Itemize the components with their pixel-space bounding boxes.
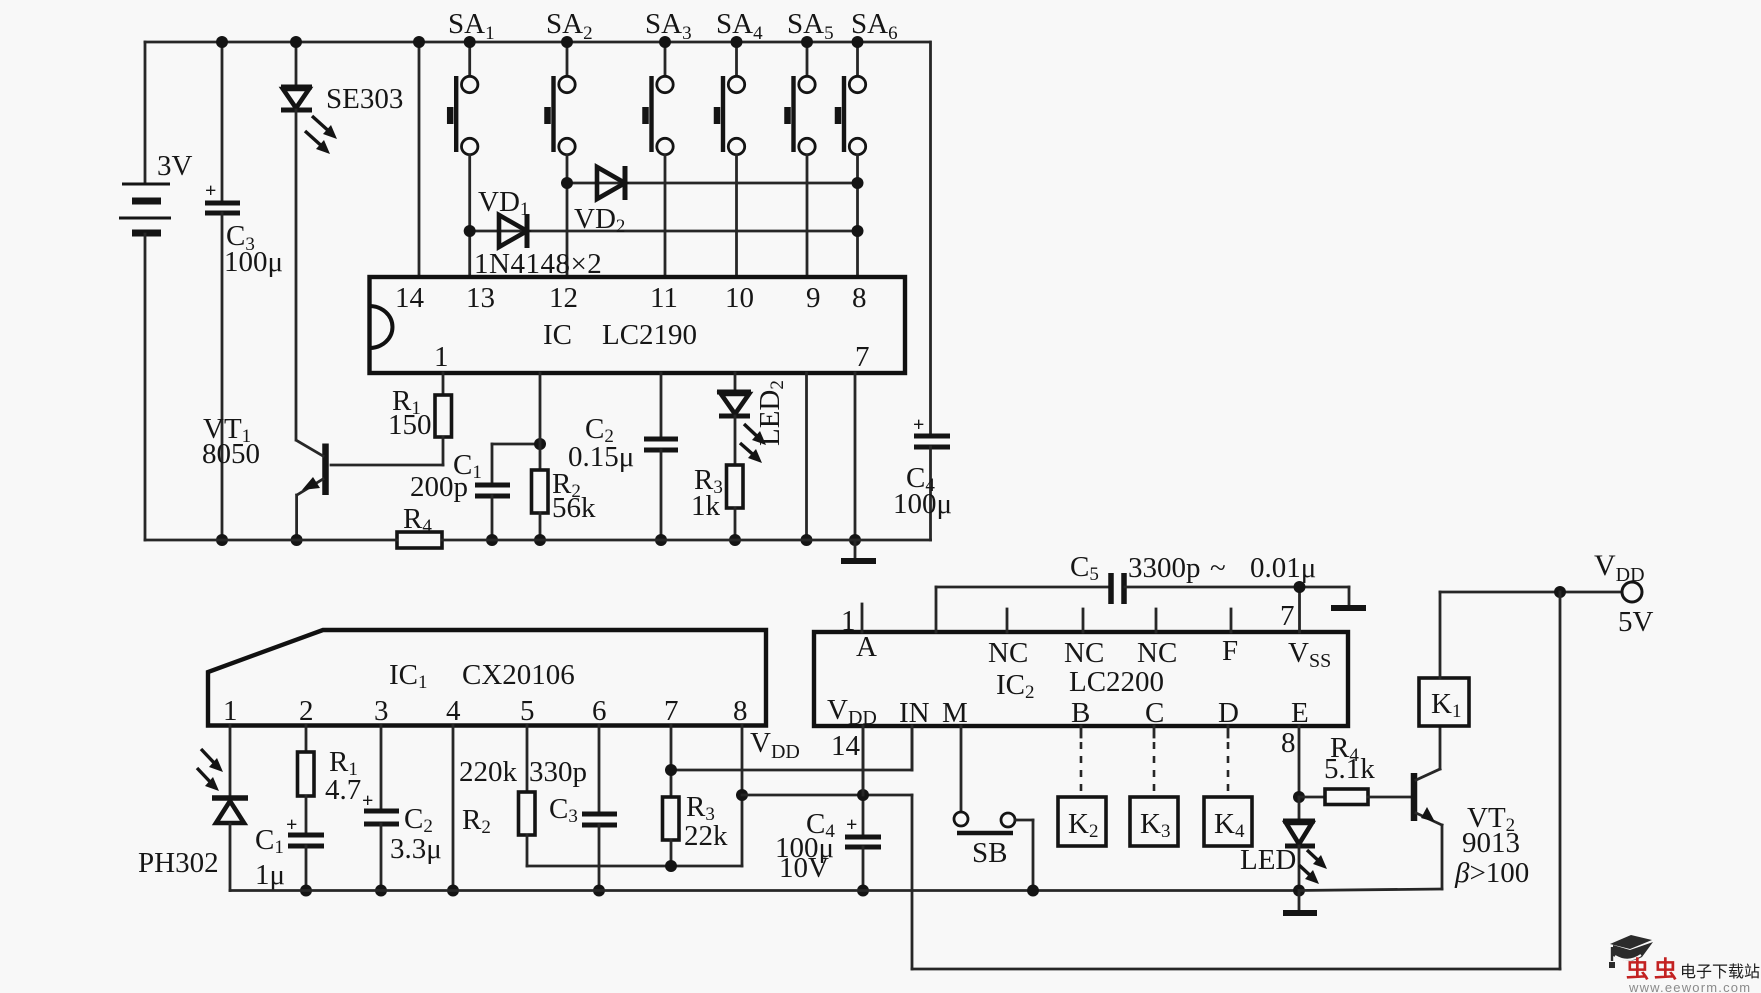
IC LC2190 <box>370 277 906 373</box>
node dot C4 bottom (receiver rail) <box>857 885 869 897</box>
svg-text:NC: NC <box>1064 637 1104 669</box>
wire IN pin down-left <box>911 726 914 770</box>
svg-text:13: 13 <box>466 282 495 314</box>
svg-text:100μ: 100μ <box>224 246 283 278</box>
resistor R2 56k <box>532 373 597 540</box>
svg-text:1k: 1k <box>691 490 721 522</box>
svg-text:1μ: 1μ <box>255 859 285 891</box>
wire R2/R3 bottoms to pin8 column <box>527 860 742 872</box>
svg-text:+: + <box>286 814 297 836</box>
svg-text:5: 5 <box>520 695 535 727</box>
resistor R4 5.1k (receiver) <box>1299 732 1411 805</box>
wire pin7 to IN of IC2 <box>665 726 912 777</box>
svg-text:LED2: LED2 <box>754 380 788 446</box>
svg-text:IC: IC <box>543 319 572 351</box>
svg-text:NC: NC <box>988 637 1028 669</box>
wire pin14 VDD of IC2 <box>831 726 863 795</box>
resistor R1 150 <box>388 373 452 465</box>
node dot C2 bottom at rail <box>655 534 667 546</box>
svg-text:M: M <box>942 697 968 729</box>
wire from rail down to pin 14 <box>413 36 425 277</box>
svg-text:8: 8 <box>852 282 867 314</box>
svg-text:D: D <box>1218 697 1239 729</box>
LED SE303 infrared emitter <box>281 42 403 440</box>
svg-text:SB: SB <box>972 837 1007 869</box>
op-amp IC1 CX20106 body <box>208 630 766 727</box>
svg-text:IN: IN <box>899 697 930 729</box>
capacitor C2 3.3u (receiver) <box>362 726 442 891</box>
wire top rail <box>145 41 930 44</box>
svg-text:8050: 8050 <box>202 438 260 470</box>
ground at VSS <box>1331 587 1366 608</box>
relay K1 <box>1419 592 1469 769</box>
svg-text:LC2190: LC2190 <box>602 319 697 351</box>
pin 7 stub of IC2 <box>1280 587 1300 632</box>
svg-text:A: A <box>856 631 877 663</box>
svg-text:8: 8 <box>1281 727 1296 759</box>
svg-text:10: 10 <box>725 282 754 314</box>
resistor R4 on ground rail <box>397 503 442 548</box>
node dot VT1 emitter at rail <box>291 534 303 546</box>
node dot C3 bottom (receiver rail) <box>593 885 605 897</box>
pushbutton SB on M pin <box>954 726 1039 897</box>
pushbutton SA1 <box>448 8 495 277</box>
terminal VDD 5V <box>1440 549 1654 638</box>
LED indicator (receiver) <box>1240 797 1327 891</box>
svg-text:330p: 330p <box>529 756 587 788</box>
svg-text:6: 6 <box>592 695 607 727</box>
wire left side down to battery <box>144 42 147 184</box>
pin 1 stub of IC2 <box>841 604 862 637</box>
photodiode PH302 <box>138 726 248 891</box>
svg-text:200p: 200p <box>410 471 468 503</box>
svg-text:电子下载站: 电子下载站 <box>1680 963 1760 981</box>
svg-text:LED: LED <box>1240 844 1296 876</box>
relay K3 with dashed link to C <box>1130 726 1178 846</box>
svg-text:150: 150 <box>388 409 432 441</box>
svg-text:www.eeworm.com: www.eeworm.com <box>1628 980 1751 993</box>
wire E pin down <box>1281 726 1305 803</box>
wire pin8 VDD column <box>736 726 800 867</box>
LED2 indicator <box>717 373 788 465</box>
svg-text:CX20106: CX20106 <box>462 659 575 691</box>
capacitor C2 0.15u <box>568 373 678 540</box>
wire VDD return to IC2 supply <box>912 592 1560 969</box>
node dot C2 bottom (receiver rail) <box>375 885 387 897</box>
svg-text:LC2200: LC2200 <box>1069 666 1164 698</box>
svg-text:E: E <box>1291 697 1309 729</box>
ground below pin7 <box>841 540 876 561</box>
svg-text:7: 7 <box>664 695 679 727</box>
svg-text:1: 1 <box>434 341 449 373</box>
node dot SE303 top <box>290 36 302 48</box>
svg-text:4: 4 <box>446 695 461 727</box>
svg-text:3300p: 3300p <box>1128 552 1201 584</box>
svg-text:11: 11 <box>650 282 678 314</box>
resistor R1 4.7 (receiver) <box>298 726 362 835</box>
IC2 LC2200 body <box>814 631 1348 729</box>
capacitor C5 3300p~0.01u <box>936 551 1349 632</box>
svg-text:3.3μ: 3.3μ <box>390 833 442 865</box>
relay K4 with dashed link to D <box>1204 726 1252 846</box>
svg-text:0.15μ: 0.15μ <box>568 441 634 473</box>
svg-text:+: + <box>846 814 857 836</box>
node dot C1 bottom (receiver rail) <box>300 885 312 897</box>
svg-text:β>100: β>100 <box>1454 857 1529 889</box>
svg-text:F: F <box>1222 635 1238 667</box>
svg-text:B: B <box>1071 697 1090 729</box>
relay K2 with dashed link to B <box>1058 726 1106 846</box>
pushbutton SA3 <box>645 8 692 277</box>
svg-text:虫: 虫 <box>1626 956 1649 982</box>
svg-text:14: 14 <box>395 282 425 314</box>
diode VD1 1N4148 <box>464 186 864 248</box>
svg-text:7: 7 <box>855 341 870 373</box>
wire transmitter ground rail <box>145 539 931 542</box>
svg-text:0.01μ: 0.01μ <box>1250 552 1316 584</box>
svg-text:8: 8 <box>733 695 748 727</box>
node dot C3 bottom <box>216 534 228 546</box>
svg-text:14: 14 <box>831 730 861 762</box>
svg-text:12: 12 <box>549 282 578 314</box>
capacitor C4 100u with right-side wire <box>893 42 952 540</box>
resistor R3 1k <box>691 464 743 540</box>
pushbutton SA6 <box>838 8 898 277</box>
svg-text:3V: 3V <box>157 150 193 182</box>
svg-text:PH302: PH302 <box>138 847 219 879</box>
node dot R3 bottom at rail <box>729 534 741 546</box>
wire base of VT1 <box>331 464 443 467</box>
svg-text:4.7: 4.7 <box>325 774 361 806</box>
resistor R2 220k (receiver) <box>459 726 535 867</box>
battery GB 3V <box>119 150 193 233</box>
ground below LED <box>1283 891 1317 914</box>
capacitor C1 200p <box>410 444 540 540</box>
svg-text:9013: 9013 <box>1462 827 1520 859</box>
capacitor C1 1u (receiver) <box>255 814 324 891</box>
pushbutton SA4 <box>716 8 763 277</box>
svg-text:5.1k: 5.1k <box>1324 753 1375 785</box>
watermark logo <box>1609 935 1760 993</box>
wire pin7 down to rail <box>849 373 861 546</box>
node dot LED bottom <box>1293 885 1305 897</box>
svg-text:2: 2 <box>299 695 314 727</box>
capacitor C3 100u <box>205 42 283 540</box>
svg-text:22k: 22k <box>684 820 728 852</box>
node dot C1/R2 top junction <box>534 438 546 450</box>
svg-text:5V: 5V <box>1618 606 1654 638</box>
svg-text:+: + <box>205 180 216 202</box>
diode VD2 1N4148 <box>561 166 864 237</box>
svg-text:220k: 220k <box>459 756 518 788</box>
wire pin9 column down to rail <box>801 373 813 546</box>
wire VDD horizontal to C4 and IC2 <box>742 794 912 797</box>
svg-text:+: + <box>913 414 924 436</box>
pushbutton SA5 <box>787 8 834 277</box>
svg-text:7: 7 <box>1280 600 1295 632</box>
svg-text:虫: 虫 <box>1654 956 1677 982</box>
svg-text:100μ: 100μ <box>893 488 952 520</box>
label 1N4148 x2 <box>474 248 602 280</box>
svg-text:SE303: SE303 <box>326 83 403 115</box>
pushbutton SA2 <box>546 8 593 277</box>
svg-text:9: 9 <box>806 282 821 314</box>
transistor VT2 9013 <box>1299 769 1529 891</box>
svg-text:+: + <box>362 790 373 812</box>
resistor R3 22k (receiver) <box>663 726 729 867</box>
svg-text:~: ~ <box>1210 552 1226 584</box>
node dot C3 top <box>216 36 228 48</box>
transistor VT1 8050 <box>202 413 326 540</box>
svg-text:C: C <box>1145 697 1164 729</box>
node dot C1 bottom at rail <box>486 534 498 546</box>
svg-text:NC: NC <box>1137 637 1177 669</box>
node dot R2 bottom at rail <box>534 534 546 546</box>
wire battery minus down to ground rail <box>144 234 147 540</box>
capacitor C3 330p (receiver) <box>529 726 617 891</box>
svg-text:3: 3 <box>374 695 389 727</box>
capacitor C4 100u 10V (receiver) <box>775 726 881 891</box>
NC/F pin stubs on top of IC2 <box>1007 609 1231 632</box>
wire receiver ground rail <box>230 889 1299 892</box>
wire pin4 down to rail <box>447 726 459 897</box>
svg-text:56k: 56k <box>552 492 596 524</box>
svg-text:1: 1 <box>223 695 238 727</box>
svg-text:1: 1 <box>841 605 856 637</box>
svg-text:10V: 10V <box>779 852 829 884</box>
